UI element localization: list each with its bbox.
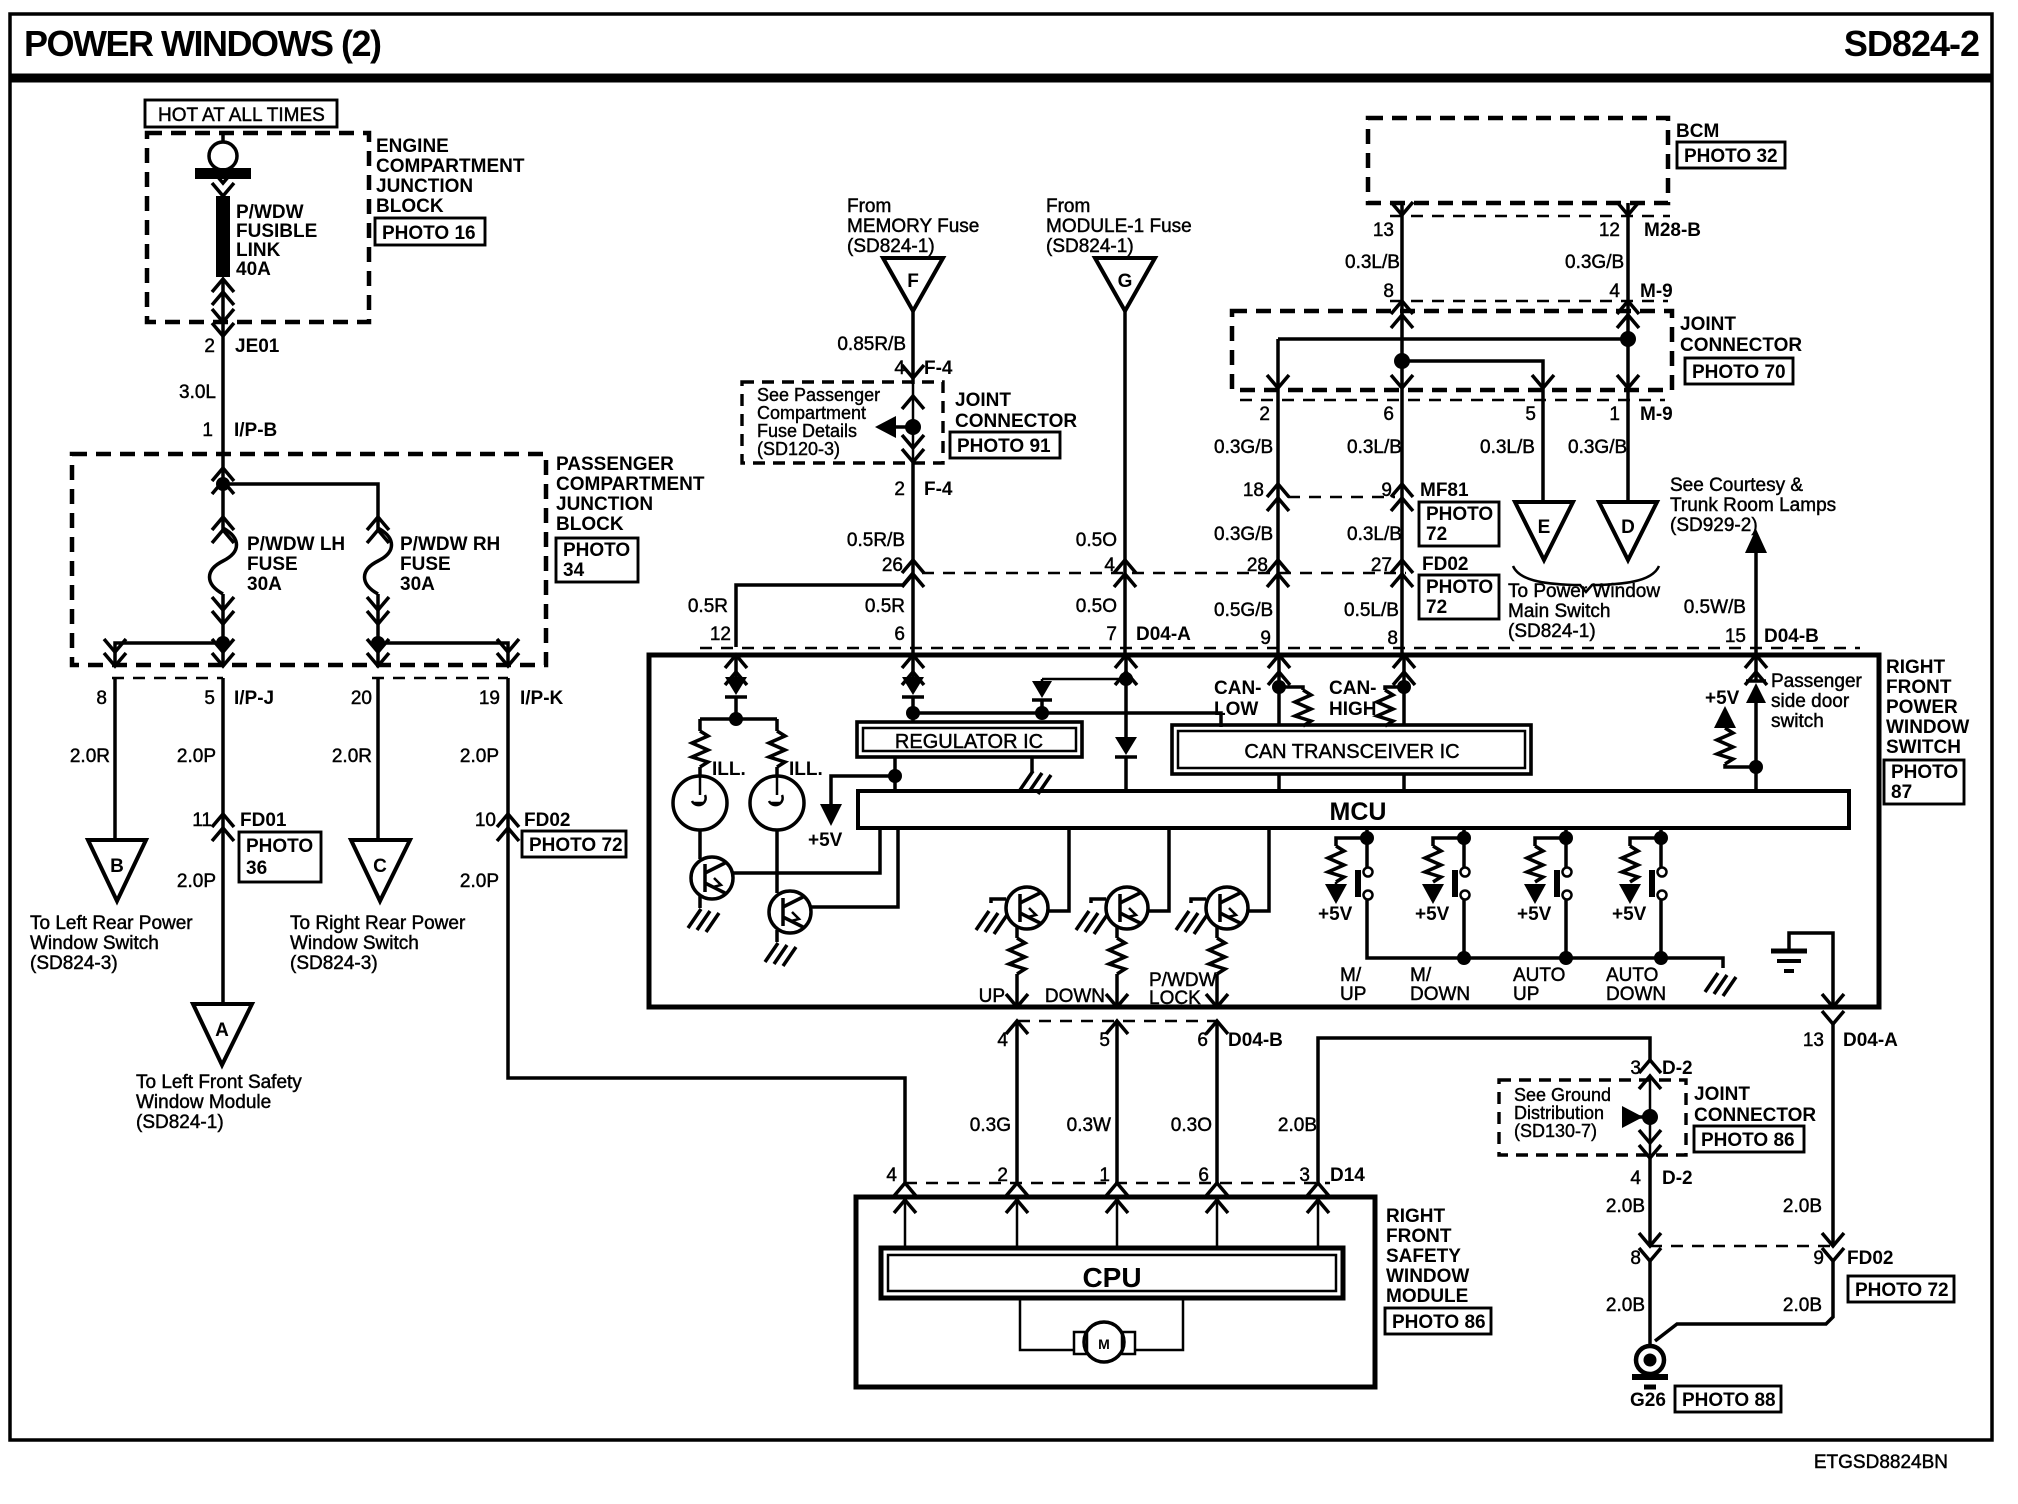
right front safety window module box [856,1197,1375,1387]
right front power window switch box [649,655,1879,1007]
svg-text:CAN TRANSCEIVER IC: CAN TRANSCEIVER IC [1244,741,1459,763]
joint connector 70 block (dashed) [1232,311,1672,390]
node junction dot LH fuse out [216,636,230,650]
lamp ILL left [673,776,727,830]
svg-text:AUTO: AUTO [1606,965,1658,986]
svg-text:D-2: D-2 [1662,1168,1693,1189]
svg-text:PASSENGER: PASSENGER [556,454,674,475]
regulator IC box [857,722,1082,757]
note See Courtesy & Trunk Room Lamps (SD929-2) [1670,475,1836,536]
svg-text:M-9: M-9 [1640,404,1673,425]
wire transceiver to MCU right [1402,774,1406,791]
svg-text:6: 6 [1383,404,1394,425]
svg-text:FRONT: FRONT [1386,1226,1452,1247]
label box PHOTO 34 [556,538,638,582]
connector D04-B pin 6 [1197,1021,1282,1051]
svg-text:PHOTO: PHOTO [563,540,630,561]
connector FD02 pin 10 [475,810,571,841]
connector D14 pin 4 [886,1165,916,1213]
connector pin 4 [1104,555,1136,587]
switch column AUTO UP [1524,828,1573,965]
wire I/P-B into block [212,455,234,504]
svg-text:LOCK: LOCK [1149,988,1201,1009]
svg-text:M/: M/ [1410,965,1432,986]
connector row MF81 (dashed) [1288,496,1395,499]
svg-text:+5V: +5V [1705,688,1740,709]
wire 0.5O pin 4 to pin 7 [1123,573,1127,655]
brace under E and D [1513,566,1659,592]
svg-text:0.85R/B: 0.85R/B [837,334,906,355]
title divider bar [10,74,1992,83]
svg-text:DOWN: DOWN [1410,984,1470,1005]
transistor Q2 (ILL driver) [769,891,811,933]
wire 2.0P pin5 to FD01 [221,678,225,814]
svg-text:SD824-2: SD824-2 [1844,23,1979,64]
connector M-9 pin 4 [1609,281,1672,328]
svg-text:1: 1 [1609,404,1620,425]
connector FD02 pin 9 [1813,1233,1893,1269]
svg-text:Passenger: Passenger [1771,671,1863,692]
page connector triangle F [883,258,943,311]
wire 2.0B pin8 to ground [1648,1261,1652,1345]
svg-text:2.0B: 2.0B [1278,1115,1317,1136]
svg-text:JOINT: JOINT [1694,1084,1750,1105]
node junction dot CAN high [1397,680,1411,694]
svg-text:2.0B: 2.0B [1783,1295,1822,1316]
svg-text:Trunk Room Lamps: Trunk Room Lamps [1670,495,1836,516]
transistor Q4 (DOWN driver) [1106,887,1148,929]
switch column M/UP [1325,828,1723,968]
svg-text:4: 4 [997,1030,1008,1051]
wire 0.5O from G to pin 4 [1123,311,1127,573]
wire 0.5R branch to pin 12 [736,573,913,647]
wire 2.0B pin9 to ground [1655,1261,1833,1341]
connector row M-9 top (dashed) [1390,300,1668,303]
arrow LOCK exit [1206,994,1228,1007]
MCU box [858,791,1849,828]
page connector triangle D [1599,502,1657,560]
connector D14 pin 2 [997,1165,1028,1213]
svg-text:2: 2 [204,336,215,357]
BCM block (dashed) [1368,118,1668,203]
wire CAN low into transceiver [1277,655,1281,726]
connector pin 26 [882,555,924,587]
svg-text:2: 2 [997,1165,1008,1186]
svg-text:CAN-: CAN- [1329,678,1377,699]
svg-text:MF81: MF81 [1420,480,1469,501]
wire 2.0R pin20 to triangle C [376,678,380,840]
wire MCU to Q3 collector [1048,828,1069,911]
ground Q2 [765,943,796,966]
svg-text:(SD824-1): (SD824-1) [847,236,935,257]
svg-text:ILL.: ILL. [712,759,746,780]
label CAN-LOW [1214,678,1262,720]
note To Right Rear Power Window Switch (SD824-3) [290,913,466,974]
svg-text:2.0R: 2.0R [332,746,372,767]
resistor pullup with +5V arrow [1714,706,1756,767]
svg-text:PHOTO 86: PHOTO 86 [1392,1312,1486,1333]
svg-text:FD02: FD02 [524,810,570,831]
reference arrow ground distribution [1622,1106,1650,1128]
svg-text:0.3G/B: 0.3G/B [1214,437,1273,458]
wire fusible link to JE01 [212,279,234,336]
note From MODULE-1 Fuse (SD824-1) [1046,196,1192,257]
svg-text:F-4: F-4 [924,479,953,500]
svg-text:FD02: FD02 [1422,554,1468,575]
label P/WDW RH FUSE 30A [400,534,500,595]
node junction dot joint connector 86 [1642,1109,1658,1125]
label box PHOTO 86 [1385,1308,1491,1334]
svg-text:+5V: +5V [1318,904,1353,925]
transistor Q1 (ILL driver) [691,857,733,899]
svg-text:side door: side door [1771,691,1850,712]
svg-text:C: C [373,856,387,877]
wire UP to pin 4 [1015,974,1019,1007]
note To Left Rear Power Window Switch (SD824-3) [30,913,193,974]
wire pin8 branch to pin5 [1402,361,1543,390]
label P/WDW LH FUSE 30A [247,534,345,595]
connector row D04-A (dashed) [700,647,1860,650]
svg-text:COMPARTMENT: COMPARTMENT [556,474,705,495]
svg-text:8: 8 [1387,628,1398,649]
svg-text:BLOCK: BLOCK [556,514,624,535]
arrow DOWN exit [1106,994,1128,1007]
svg-text:9: 9 [1813,1248,1824,1269]
pin 7 entry chevrons [1115,655,1137,685]
svg-text:+5V: +5V [1612,904,1647,925]
svg-text:3.0L: 3.0L [179,382,216,403]
svg-text:(SD824-3): (SD824-3) [290,953,378,974]
svg-text:4: 4 [1609,281,1620,302]
resistor LOCK output [1209,938,1225,974]
svg-text:0.3L/B: 0.3L/B [1480,437,1535,458]
joint connector note box (dashed) See Ground Distribution [1499,1080,1686,1155]
connector pin 28 [1247,555,1289,587]
wire D3 to pin 7 node [1042,678,1126,681]
node junction dot +5V [888,769,902,783]
wire ILL branch [700,719,777,731]
svg-text:0.3G/B: 0.3G/B [1568,437,1627,458]
label box PHOTO 70 [1685,358,1793,384]
wire 0.5R/B F-4 to pin 26 [911,462,915,573]
lamp ILL right [750,776,804,830]
wire pin 5 exit [212,639,234,666]
svg-text:G26: G26 [1630,1390,1666,1411]
svg-text:72: 72 [1426,597,1447,618]
wire pin8 column inside joint connector [1400,301,1404,390]
svg-text:PHOTO 86: PHOTO 86 [1701,1130,1795,1151]
node junction dot CAN low [1272,680,1286,694]
svg-text:0.3L/B: 0.3L/B [1347,437,1402,458]
wire 0.3G pin4 to D14 [1015,1021,1019,1183]
wire pin6 column down to pin 9 [1400,390,1404,497]
svg-text:PHOTO 91: PHOTO 91 [957,436,1051,457]
svg-text:2.0B: 2.0B [1783,1196,1822,1217]
label Passenger side door switch [1771,671,1863,732]
pin 5 I/P-J [204,688,274,709]
wire branch to RH fuse [223,484,378,504]
connector row M28-B (dashed) [1390,215,1670,218]
battery terminal B+ [195,133,251,196]
svg-text:87: 87 [1891,782,1912,803]
fusible link P/WDW FUSIBLE LINK 40A [216,196,230,277]
svg-text:0.5W/B: 0.5W/B [1684,597,1746,618]
wire pin 20 exit [367,639,389,666]
wire Q3 base stub [991,899,1006,903]
svg-text:M: M [1098,1336,1110,1352]
svg-text:Window Module: Window Module [136,1092,271,1113]
svg-text:Compartment: Compartment [757,403,866,423]
wire branch to pin 19 [378,639,519,666]
svg-text:3: 3 [1299,1165,1310,1186]
svg-text:2: 2 [1259,404,1270,425]
svg-text:30A: 30A [247,574,282,595]
note From MEMORY Fuse (SD824-1) [847,196,979,257]
label JOINT CONNECTOR [1680,314,1802,356]
svg-text:LINK: LINK [236,240,281,261]
node junction dot regulator feed [906,706,920,720]
fuse P/WDW RH FUSE 30A [365,504,392,643]
pin 9 entry chevrons [1268,655,1290,685]
svg-text:UP: UP [1513,984,1539,1005]
svg-text:0.3L/B: 0.3L/B [1347,524,1402,545]
wire pin4 column inside joint connector [1626,301,1630,390]
svg-text:FUSIBLE: FUSIBLE [236,221,317,242]
svg-text:To Right Rear Power: To Right Rear Power [290,913,466,934]
label box PHOTO 32 [1677,142,1785,168]
svg-text:36: 36 [246,858,267,879]
svg-text:To Left Rear Power: To Left Rear Power [30,913,193,934]
svg-text:Window Switch: Window Switch [290,933,419,954]
svg-text:1: 1 [202,420,213,441]
page connector triangle B [88,840,146,901]
svg-text:15: 15 [1725,626,1746,647]
wire bus pin4 to pin2 [1278,339,1628,390]
connector M-9 pin 8 [1383,281,1413,328]
svg-text:JUNCTION: JUNCTION [376,176,473,197]
ground G26 [1632,1346,1668,1387]
svg-text:40A: 40A [236,259,271,280]
svg-text:30A: 30A [400,574,435,595]
wire 2.0R to triangle B [113,678,117,840]
svg-text:1: 1 [1099,1165,1110,1186]
label box PHOTO 88 [1675,1386,1781,1412]
label M/ UP [1340,965,1366,1005]
label PASSENGER COMPARTMENT JUNCTION BLOCK [556,454,705,535]
svg-text:3: 3 [1630,1058,1641,1079]
svg-text:See Ground: See Ground [1514,1085,1611,1105]
node junction dot on pin4 column [1620,331,1636,347]
svg-text:5: 5 [204,688,215,709]
ground regulator [1020,757,1051,794]
ground Q3 [976,911,1007,934]
svg-text:5: 5 [1525,404,1536,425]
pin 15 entry chevrons [1745,655,1767,685]
svg-text:I/P-J: I/P-J [234,688,274,709]
svg-text:FUSE: FUSE [400,554,451,575]
node junction dot pin15 [1749,760,1763,774]
connector FD02 pin 8 [1630,1233,1661,1269]
ground Q1 [688,909,719,932]
svg-text:POWER WINDOWS (2): POWER WINDOWS (2) [24,23,381,64]
svg-text:P/WDW RH: P/WDW RH [400,534,500,555]
wire pin 18 to pin 28 [1276,497,1280,655]
svg-text:13: 13 [1373,220,1394,241]
svg-text:0.3G/B: 0.3G/B [1565,252,1624,273]
wire BCM pin 13 out [1391,202,1413,301]
svg-text:See Courtesy &: See Courtesy & [1670,475,1803,496]
svg-text:See Passenger: See Passenger [757,385,880,405]
switch column M/DOWN [1422,828,1471,965]
node junction dot RH fuse out [371,636,385,650]
svg-text:F-4: F-4 [924,358,953,379]
svg-text:To Left Front Safety: To Left Front Safety [136,1072,302,1093]
svg-text:0.3G/B: 0.3G/B [1214,524,1273,545]
svg-text:8: 8 [1383,281,1394,302]
svg-text:BCM: BCM [1676,121,1719,142]
svg-text:9: 9 [1260,628,1271,649]
svg-text:From: From [1046,196,1090,217]
wire branch to pin 8 [104,639,223,666]
ground Q5 [1176,911,1207,934]
page connector triangle C [351,840,410,901]
note To Power Window Main Switch (SD824-1) [1508,581,1660,642]
pin 1 M-9 [1609,404,1672,425]
svg-text:CAN-: CAN- [1214,678,1262,699]
CAN transceiver IC box [1172,725,1531,774]
svg-text:M/: M/ [1340,965,1362,986]
wire BCM pin 12 out [1617,202,1639,301]
svg-text:2.0P: 2.0P [460,746,499,767]
svg-text:PHOTO: PHOTO [1426,504,1493,525]
svg-text:COMPARTMENT: COMPARTMENT [376,156,525,177]
wire DOWN to pin 5 [1115,974,1119,1007]
+5V arrow [820,776,895,826]
svg-text:26: 26 [882,555,903,576]
wire 0.3W pin5 to D14 [1115,1021,1119,1183]
svg-text:D-2: D-2 [1662,1058,1693,1079]
svg-text:PHOTO: PHOTO [1426,577,1493,598]
svg-text:9: 9 [1381,480,1392,501]
svg-text:6: 6 [1197,1030,1208,1051]
svg-text:0.3G: 0.3G [970,1115,1011,1136]
wire Q5 base stub [1191,899,1206,903]
diode D4 to MCU [1115,737,1137,791]
arrow UP exit [1006,994,1028,1007]
label box PHOTO 72 [1419,575,1499,619]
svg-text:Fuse Details: Fuse Details [757,421,857,441]
svg-text:MODULE-1 Fuse: MODULE-1 Fuse [1046,216,1192,237]
pin 15 D04-B [1725,626,1819,647]
wire transceiver to MCU left [1277,774,1281,791]
svg-text:SWITCH: SWITCH [1886,737,1961,758]
label JOINT CONNECTOR [955,390,1077,432]
svg-text:PHOTO 32: PHOTO 32 [1684,146,1778,167]
note To Left Front Safety Window Module (SD824-1) [136,1072,302,1133]
connector row D04-B (dashed) [1018,1020,1217,1023]
connector I/P-B pin 1 [202,420,277,441]
connector D14 pin 3 [1299,1165,1365,1213]
svg-text:19: 19 [479,688,500,709]
transistor Q3 (UP driver) [1006,887,1048,929]
svg-text:2: 2 [894,479,905,500]
pin 7 D04-A [1106,624,1191,645]
pin 12 entry chevrons [725,655,747,685]
svg-text:28: 28 [1247,555,1268,576]
label AUTO UP [1513,965,1565,1005]
svg-text:D14: D14 [1330,1165,1365,1186]
fuse P/WDW LH FUSE 30A [210,504,237,643]
connector F-4 pin 4 [894,358,953,379]
diode D3 backfeed [1032,679,1052,713]
svg-text:0.3W: 0.3W [1067,1115,1111,1136]
wire through joint connector F-4 [902,384,924,462]
connector D14 pin 6 [1198,1165,1228,1213]
wire resistor to bulb left [698,767,702,776]
wire 0.3O pin6 to D14 [1215,1021,1219,1183]
label P/WDW FUSIBLE LINK 40A [236,202,317,280]
svg-text:2.0P: 2.0P [460,871,499,892]
svg-text:P/WDW LH: P/WDW LH [247,534,345,555]
label P/WDW LOCK [1149,970,1217,1009]
chassis ground symbol [1771,933,1833,1007]
engine compartment junction block (dashed) [147,133,369,322]
wire pin5 column to triangle E [1541,390,1545,502]
pin 6 entry chevrons [902,655,924,685]
wire pin1 column to triangle D [1626,390,1630,502]
svg-text:4: 4 [1630,1168,1641,1189]
wire through joint connector D-2 [1649,1076,1652,1155]
svg-text:4: 4 [894,358,905,379]
motor M [1074,1322,1135,1362]
resistor CAN high termination [1377,687,1404,726]
svg-text:CPU: CPU [1082,1262,1141,1293]
svg-text:I/P-B: I/P-B [234,420,277,441]
connector row D14 (dashed) [905,1182,1330,1185]
svg-text:Main Switch: Main Switch [1508,601,1610,622]
svg-text:JUNCTION: JUNCTION [556,494,653,515]
diode D5 passenger switch [1746,655,1766,791]
wire 3.0L JE01 to I/P-B [221,336,225,455]
svg-text:0.5R: 0.5R [865,596,905,617]
connector F-4 pin 2 [894,479,953,500]
svg-text:(SD130-7): (SD130-7) [1514,1121,1597,1141]
node junction dot I/P-B [216,477,230,491]
svg-text:switch: switch [1771,711,1824,732]
connector D-2 pin 4 [1630,1130,1692,1189]
svg-text:8: 8 [1630,1248,1641,1269]
wire regulator input [911,713,915,722]
svg-text:11: 11 [192,810,212,831]
label RIGHT FRONT SAFETY WINDOW MODULE [1386,1206,1469,1307]
svg-text:D04-B: D04-B [1764,626,1819,647]
connector M-9 bottom exits [1267,375,1639,388]
wire regulator output to +5V node [893,757,897,791]
label box PHOTO 87 [1884,760,1964,804]
joint connector note box (dashed) See Passenger Compartment Fuse Details [742,382,943,463]
note See Passenger Compartment Fuse Details (SD120-3) [757,385,880,459]
svg-text:M-9: M-9 [1640,281,1673,302]
page connector triangle G [1095,258,1155,311]
connector FD02 pin 27 [1371,554,1469,587]
svg-text:F: F [907,271,919,292]
svg-text:B: B [110,856,124,877]
connector D14 pin 1 [1099,1165,1128,1213]
svg-text:PHOTO: PHOTO [246,836,313,857]
node junction dot pin 7 [1119,672,1133,686]
svg-text:CONNECTOR: CONNECTOR [1680,335,1802,356]
wire 2.0P FD01 to triangle A [221,814,225,1004]
